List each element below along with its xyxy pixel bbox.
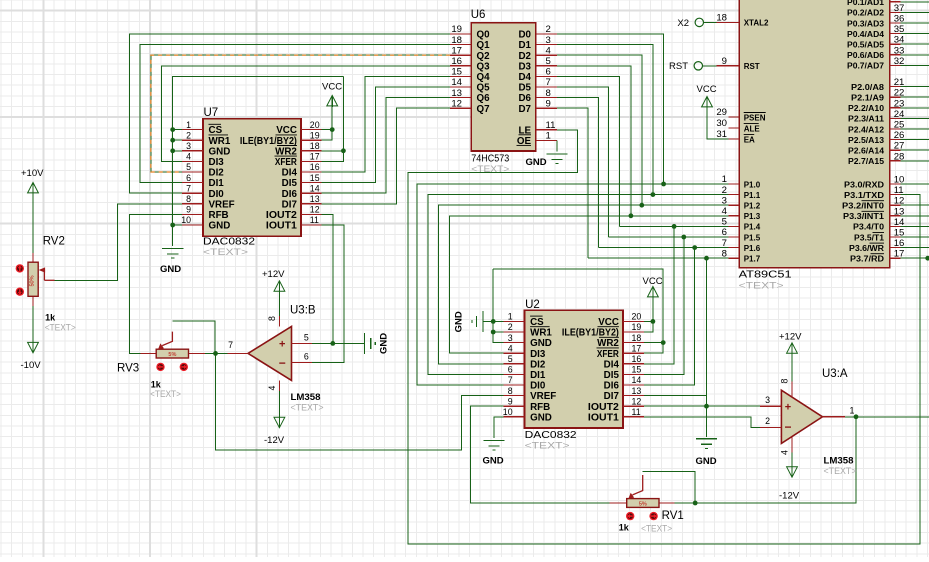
svg-text:1k: 1k [619, 523, 630, 533]
svg-text:11: 11 [310, 215, 319, 225]
svg-text:29: 29 [716, 107, 727, 118]
svg-text:GND: GND [696, 456, 717, 467]
wire U7 VCC pin20 link [321, 129, 332, 131]
wire P1.3 to U2 DI3 [450, 216, 729, 353]
svg-text:+10V: +10V [21, 168, 44, 179]
power symbol -12V U3:A [787, 467, 798, 477]
wire RV3 wiper loop [172, 321, 215, 353]
svg-text:D0: D0 [518, 30, 531, 41]
wire Q2 U6.17 to U7.5 DI2 (highlighted) [151, 55, 450, 172]
svg-text:18: 18 [310, 141, 320, 151]
svg-text:VREF: VREF [209, 199, 235, 210]
svg-text:P1.6: P1.6 [744, 244, 761, 253]
wire D2 U6.4 to P1.2 [557, 55, 642, 205]
svg-text:DI2: DI2 [530, 359, 546, 370]
wire VCC to U2.20/19 [644, 298, 653, 332]
svg-text:4: 4 [267, 386, 277, 391]
svg-text:Q3: Q3 [477, 61, 491, 72]
wire P1.4 row [619, 225, 728, 227]
svg-text:2: 2 [765, 416, 770, 426]
svg-text:DI0: DI0 [209, 189, 225, 200]
wire RST terminal to RST pin [703, 65, 717, 67]
svg-text:−: − [279, 356, 286, 370]
wire P1.6 row [598, 247, 728, 249]
RV2 wiper [43, 270, 44, 280]
junction P1.1 [651, 192, 656, 197]
wire P2 row y=150 [900, 149, 929, 151]
wire RV1 node to U3:A output [695, 417, 856, 503]
power symbol -10V supply [28, 342, 39, 352]
wire P3.3 to edge [900, 215, 929, 217]
svg-text:2: 2 [186, 130, 191, 140]
wire U3:B pin4 to -12V [278, 391, 280, 417]
svg-text:GND: GND [453, 311, 464, 332]
wire RV3 right to node [205, 352, 215, 354]
wire U7 control ground rail [173, 76, 344, 246]
svg-text:7: 7 [228, 340, 233, 350]
svg-text:14: 14 [632, 375, 642, 385]
svg-text:Q0: Q0 [477, 30, 491, 41]
svg-text:12: 12 [632, 396, 642, 406]
svg-text:EA: EA [744, 135, 755, 144]
DAC U7 DAC0832 [181, 107, 321, 258]
svg-text:P1.5: P1.5 [744, 233, 761, 242]
wire P0 row y=2 [900, 1, 929, 3]
wire D5 U6.7 to P1.5 [557, 87, 609, 237]
svg-text:+: + [279, 339, 285, 351]
svg-text:P0.3/AD3: P0.3/AD3 [847, 19, 885, 28]
wire P0 row y=65 [900, 64, 929, 66]
svg-text:VCC: VCC [697, 84, 717, 95]
svg-text:DI4: DI4 [604, 359, 620, 370]
junction U3:B output node [213, 351, 218, 356]
svg-text:17: 17 [632, 343, 642, 353]
power symbol -12V U3:B [274, 417, 285, 427]
wire P2 row y=129 [900, 128, 929, 130]
svg-text:4: 4 [508, 343, 513, 353]
svg-text:1k: 1k [45, 312, 56, 322]
svg-text:P3.5/T1: P3.5/T1 [854, 233, 885, 242]
svg-text:D2: D2 [518, 51, 531, 62]
svg-text:D6: D6 [518, 93, 531, 104]
svg-text:GND: GND [209, 146, 231, 157]
wire U2 RFB to RV1 left [470, 406, 609, 503]
wire P3.6 to edge [900, 247, 929, 249]
wire Q7 U6.12 to U7.13 DI7 [321, 108, 450, 204]
svg-text:P1.2: P1.2 [744, 202, 761, 211]
power symbol +10V supply [28, 183, 39, 193]
svg-text:DAC0832: DAC0832 [525, 430, 578, 441]
svg-text:-12V: -12V [779, 491, 800, 502]
svg-text:DI5: DI5 [604, 370, 620, 381]
AT89C51 pin stubs [717, 21, 740, 23]
junction P3.7 end [925, 256, 929, 261]
junction U2 pin1 [491, 319, 496, 324]
svg-text:<TEXT>: <TEXT> [203, 247, 249, 258]
power symbol +12V U3:B [274, 281, 285, 291]
wire +12V to U3:B pin8 [278, 292, 280, 316]
svg-text:LM358: LM358 [291, 392, 321, 402]
wire U2 CS link [493, 320, 503, 322]
svg-text:Q2: Q2 [477, 51, 491, 62]
svg-text:P3.6/WR: P3.6/WR [849, 244, 884, 253]
wire P1.1 to U2 DI1 [428, 195, 728, 375]
svg-text:LM358: LM358 [824, 456, 854, 466]
wire P1.4 to U2 DI4 [644, 226, 674, 363]
wire U7 GND10 link [173, 224, 182, 226]
svg-text:4: 4 [186, 152, 191, 162]
junction P1.3 [629, 213, 634, 218]
wire P3.7 to node [900, 257, 927, 259]
wire D4 U6.6 to P1.4 [557, 76, 619, 226]
svg-text:Q1: Q1 [477, 40, 491, 51]
U3:B pin stubs [292, 342, 312, 344]
op-amp U3:B LM358 [227, 304, 324, 413]
ground GND U3:B plus input [364, 333, 375, 354]
ground GND U3:A plus input [696, 439, 717, 449]
svg-text:GND: GND [378, 333, 389, 354]
svg-text:D4: D4 [518, 72, 531, 83]
svg-text:30: 30 [716, 118, 727, 129]
wire VCC to EA [707, 108, 729, 139]
wire link DI7 row to plus node [706, 396, 708, 407]
wire P1.2 to U2 DI2 [439, 205, 729, 364]
svg-text:XFER: XFER [597, 349, 619, 360]
svg-text:9: 9 [508, 396, 513, 406]
marker RV2 pad1 [16, 264, 24, 272]
junction U3:B pin5 [330, 341, 335, 346]
svg-text:14: 14 [310, 183, 320, 193]
svg-text:P2.6/A14: P2.6/A14 [848, 147, 885, 156]
svg-text:18: 18 [632, 333, 642, 343]
junction U7 pin1 [170, 127, 175, 132]
svg-text:Q7: Q7 [477, 104, 491, 115]
ground GND U2 [483, 441, 504, 451]
svg-text:P1.3: P1.3 [744, 212, 761, 221]
junction P1.2 [639, 203, 644, 208]
wire P1.0 to U2 DI0 [417, 184, 729, 385]
svg-text:3: 3 [765, 395, 770, 405]
junction U3:A output node [854, 414, 859, 419]
wire P2 row y=140 [900, 139, 929, 141]
svg-text:13: 13 [310, 194, 320, 204]
U2 pin stubs [503, 320, 524, 322]
svg-text:Q4: Q4 [477, 72, 491, 83]
svg-text:8: 8 [508, 386, 513, 396]
junction P1.7 [704, 256, 709, 261]
svg-text:6: 6 [304, 351, 309, 361]
wire U7 RFB to RV3 left [129, 214, 182, 353]
svg-text:RST: RST [744, 62, 760, 71]
wire D7 U6.9 to P1.7 [557, 108, 588, 258]
svg-text:U3:B: U3:B [290, 304, 316, 316]
wire Q4 U6.15 to U7.16 DI4 [321, 76, 450, 172]
wire +12V to U3:A pin8 [791, 354, 793, 381]
potentiometer RV2 1k [28, 253, 55, 306]
svg-text:11: 11 [632, 407, 641, 417]
wire D6 U6.8 to P1.6 [557, 98, 598, 248]
power symbol VCC U2 [648, 287, 659, 297]
svg-text:P1.4: P1.4 [744, 223, 761, 232]
wire P0 row y=23 [900, 22, 929, 24]
terminal X2 [695, 18, 703, 26]
svg-text:GND: GND [483, 456, 504, 467]
wire P2 row y=108 [900, 107, 929, 109]
potentiometer RV1 1k [610, 475, 675, 508]
svg-text:1: 1 [186, 120, 191, 130]
marker RV3 pad2 [180, 363, 188, 371]
svg-text:P3.7/RD: P3.7/RD [850, 255, 884, 264]
junction U7 pin3 [170, 148, 175, 153]
svg-text:P2.4/A12: P2.4/A12 [848, 125, 885, 134]
svg-text:P0.7/AD7: P0.7/AD7 [847, 62, 885, 71]
wire U3:B pin5 to ground [312, 342, 365, 344]
wire U2 CS/WR2/XFER loop [493, 269, 663, 353]
svg-text:WR1: WR1 [209, 136, 231, 147]
wire RV1 right to node [675, 502, 696, 504]
wire U7 WR2 stub link [321, 150, 343, 152]
svg-text:17: 17 [310, 152, 320, 162]
svg-text:U6: U6 [471, 9, 486, 21]
svg-text:GND: GND [530, 412, 552, 423]
svg-text:VCC: VCC [322, 82, 342, 93]
wire P0 row y=44 [900, 43, 929, 45]
svg-text:5: 5 [508, 354, 513, 364]
svg-text:RFB: RFB [530, 402, 550, 413]
svg-text:D3: D3 [518, 61, 531, 72]
svg-text:<TEXT>: <TEXT> [525, 440, 571, 451]
wire Q5 U6.14 to U7.15 DI5 [321, 87, 450, 183]
wire Q0 U6.19 to U7.7 DI0 [130, 34, 451, 193]
power symbol VCC U7 [327, 96, 338, 106]
svg-text:12: 12 [310, 205, 320, 215]
svg-text:RV2: RV2 [43, 236, 65, 248]
wire P2 row y=161 [900, 160, 929, 162]
junction U2 pin18 [661, 340, 666, 345]
svg-text:P3.2/INT0: P3.2/INT0 [842, 202, 885, 211]
svg-text:Q6: Q6 [477, 93, 491, 104]
junction U7 pin10 [170, 223, 175, 228]
svg-text:5%: 5% [639, 502, 647, 508]
svg-text:DI4: DI4 [282, 168, 298, 179]
DAC U2 DAC0832 [503, 299, 644, 451]
svg-text:−: − [784, 420, 791, 434]
svg-text:DI2: DI2 [209, 168, 225, 179]
junction P1.6 [692, 245, 697, 250]
wire U3:B out to U2 VREF [216, 353, 504, 450]
junction U2 pin20 VCC [651, 319, 656, 324]
svg-text:<TEXT>: <TEXT> [739, 280, 785, 291]
svg-text:13: 13 [632, 386, 642, 396]
junction U7 pin20 VCC [330, 127, 335, 132]
svg-text:19: 19 [310, 130, 320, 140]
U3:A pin stubs [760, 405, 781, 407]
svg-text:DI5: DI5 [282, 178, 298, 189]
svg-text:RV1: RV1 [662, 510, 684, 522]
wire U2 WR2 link [644, 342, 663, 344]
wire U7 CS link [173, 129, 182, 131]
wire U6 LE to AT89C51 P3.1/TXD [408, 130, 920, 544]
RV1 wiper [633, 475, 643, 495]
wire P1.5 row [609, 236, 729, 238]
svg-text:RV3: RV3 [117, 363, 139, 375]
wire Q3 U6.16 to U7.4 DI3 [161, 66, 450, 162]
svg-text:<TEXT>: <TEXT> [641, 524, 672, 535]
ground GND U7 [162, 249, 183, 259]
wire +10V to RV2 top [32, 194, 34, 253]
wire plus node to ground [706, 406, 708, 437]
junction P1.0 [661, 182, 666, 187]
wire RV1 wiper loop [643, 472, 696, 504]
svg-text:1: 1 [850, 405, 855, 415]
svg-text:<TEXT>: <TEXT> [824, 466, 857, 477]
svg-text:3: 3 [508, 333, 513, 343]
wire U6 OE to ground [556, 140, 558, 151]
wire Q6 U6.13 to U7.14 DI6 [321, 98, 450, 194]
wire node to U3:B out [216, 352, 228, 354]
wire P3.2 to edge [900, 204, 929, 206]
wire P2 row y=118 [900, 117, 929, 119]
ground GND U2 CS [472, 311, 483, 332]
power symbol +12V U3:A [787, 343, 798, 353]
svg-text:P0.1/AD1: P0.1/AD1 [847, 0, 885, 7]
svg-text:DI6: DI6 [604, 381, 620, 392]
wire P1.6 to U2 DI6 [644, 248, 695, 385]
svg-text:<TEXT>: <TEXT> [150, 389, 181, 400]
svg-text:3: 3 [186, 141, 191, 151]
svg-text:IOUT1: IOUT1 [588, 412, 620, 423]
svg-text:2: 2 [508, 322, 513, 332]
svg-text:74HC573: 74HC573 [471, 154, 509, 165]
svg-text:DI7: DI7 [282, 199, 298, 210]
svg-text:P1.7: P1.7 [744, 255, 761, 264]
svg-text:P2.1/A9: P2.1/A9 [851, 94, 885, 103]
svg-text:P0.5/AD5: P0.5/AD5 [847, 41, 885, 50]
junction U7 WR2 [341, 148, 346, 153]
svg-text:5: 5 [304, 332, 309, 342]
wire U2 GND pin10 [494, 417, 503, 438]
op-amp U3:A LM358 [760, 368, 857, 477]
svg-text:8: 8 [186, 194, 191, 204]
svg-text:20: 20 [310, 120, 320, 130]
svg-text:P0.4/AD4: P0.4/AD4 [847, 30, 885, 39]
svg-text:IOUT2: IOUT2 [266, 210, 298, 221]
junction P1.5 [681, 235, 686, 240]
svg-text:1k: 1k [151, 380, 162, 390]
wire U2 CS vertical [493, 269, 503, 343]
svg-text:IOUT2: IOUT2 [588, 402, 620, 413]
svg-text:GND: GND [160, 264, 181, 275]
svg-text:P0.6/AD6: P0.6/AD6 [847, 51, 885, 60]
svg-text:D5: D5 [518, 83, 531, 94]
svg-text:DI1: DI1 [530, 370, 546, 381]
wire U7 IOUT2 to U3:B pin5 [321, 214, 332, 343]
svg-text:P3.3/INT1: P3.3/INT1 [843, 212, 885, 221]
junction U7 pin2 [170, 138, 175, 143]
svg-text:P2.0/A8: P2.0/A8 [851, 83, 885, 92]
wire D1 U6.3 to P1.1 [557, 45, 653, 195]
marker RV3 pad1 [156, 363, 164, 371]
wire P3.4 to edge [900, 225, 929, 227]
power symbol VCC AT89C51 [702, 97, 713, 107]
wire P2 row y=87 [900, 86, 929, 88]
junction U2 pin2 [491, 330, 496, 335]
RV3 wiper [162, 332, 172, 346]
wire RV2 bottom to -10V [32, 306, 34, 343]
svg-text:DI1: DI1 [209, 178, 225, 189]
svg-text:U2: U2 [525, 299, 540, 311]
svg-text:+: + [785, 402, 791, 414]
svg-text:P1.1: P1.1 [744, 191, 761, 200]
svg-text:4: 4 [780, 450, 790, 455]
junction U3:A plus node [704, 404, 709, 409]
junction P1.4 [672, 224, 677, 229]
wire D0 U6.2 to P1.0 [557, 34, 664, 184]
wire D3 U6.5 to P1.3 [557, 66, 631, 216]
svg-text:WR1: WR1 [530, 328, 552, 339]
svg-text:8: 8 [267, 316, 277, 321]
svg-text:GND: GND [209, 221, 231, 232]
svg-text:7: 7 [186, 183, 191, 193]
svg-text:IOUT1: IOUT1 [266, 221, 298, 232]
junction RV1 node [693, 501, 698, 506]
svg-text:-12V: -12V [264, 435, 285, 446]
svg-text:10: 10 [503, 407, 513, 417]
U7 pin stubs [182, 129, 203, 131]
svg-text:VCC: VCC [643, 276, 663, 287]
wire P3.0 to edge [900, 183, 929, 185]
svg-text:P0.2/AD2: P0.2/AD2 [847, 9, 885, 18]
svg-text:P3.1/TXD: P3.1/TXD [844, 191, 884, 200]
svg-text:P2.7/A15: P2.7/A15 [848, 157, 885, 166]
svg-text:20: 20 [632, 312, 642, 322]
marker RV1 pad2 [649, 512, 657, 520]
svg-text:U3:A: U3:A [822, 368, 848, 380]
wire U3:A output to edge [845, 416, 929, 418]
svg-text:DI3: DI3 [209, 157, 225, 168]
wire P0 row y=55 [900, 54, 929, 56]
svg-text:1: 1 [508, 312, 513, 322]
svg-text:5: 5 [186, 162, 191, 172]
wire U7 GND3 link [173, 150, 182, 152]
svg-text:P2.5/A13: P2.5/A13 [848, 136, 885, 145]
terminal RST [694, 62, 702, 70]
svg-text:8: 8 [780, 379, 790, 384]
svg-text:7: 7 [508, 375, 513, 385]
svg-text:10: 10 [181, 215, 191, 225]
svg-text:PSEN: PSEN [744, 113, 766, 122]
svg-text:X2: X2 [677, 18, 689, 29]
svg-text:5%: 5% [168, 352, 176, 358]
wire U7 IOUT1 to U3:B pin6 [312, 225, 344, 362]
svg-text:50%: 50% [30, 275, 36, 286]
svg-text:Q5: Q5 [477, 83, 491, 94]
svg-text:DI0: DI0 [530, 381, 546, 392]
svg-text:6: 6 [508, 365, 513, 375]
wire P1.5 to U2 DI5 [644, 237, 684, 374]
svg-text:D7: D7 [518, 104, 531, 115]
svg-text:DI3: DI3 [530, 349, 546, 360]
svg-text:P3.4/T0: P3.4/T0 [853, 223, 885, 232]
marker RV1 pad1 [626, 512, 634, 520]
wire P1.7 to U2 DI7 [644, 258, 706, 395]
svg-text:DI7: DI7 [604, 391, 620, 402]
wire U7 WR2/XFER vertical [321, 76, 343, 161]
svg-text:D1: D1 [518, 40, 531, 51]
latch U6 74HC573 [450, 9, 557, 175]
wire X2 to XTAL2 [704, 21, 717, 23]
svg-text:15: 15 [632, 365, 642, 375]
